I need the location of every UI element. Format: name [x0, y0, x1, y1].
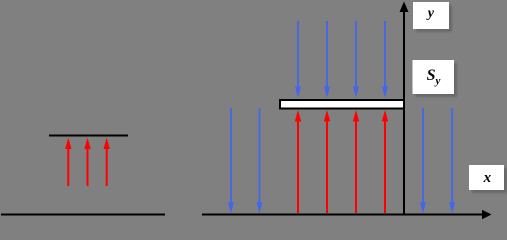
label box shadow: y — [416, 5, 452, 32]
bottom red arrow 4 (up) — [382, 110, 388, 213]
x axis line — [202, 214, 483, 216]
left red arrow 1 (up) — [65, 138, 71, 186]
y axis line — [403, 12, 405, 216]
label box: x — [469, 165, 504, 190]
top blue arrow 1 (down) — [295, 21, 301, 98]
left red arrow 2 (up) — [84, 138, 90, 186]
label box: Sy — [413, 60, 455, 94]
white bar (section slab) — [280, 100, 404, 109]
y axis arrowhead — [400, 2, 409, 13]
left red arrow 3 (up) — [104, 138, 110, 186]
bottom red arrow 3 (up) — [353, 110, 359, 213]
long blue arrow right-2 (down) — [449, 108, 455, 214]
long blue arrow left-1 (down) — [228, 108, 234, 214]
long blue arrow left-2 (down) — [257, 108, 263, 214]
left figure: bottom baseline — [1, 214, 165, 216]
left figure: top chord line — [49, 135, 128, 137]
label box shadow: x — [472, 168, 507, 193]
svg-text:y: y — [426, 6, 435, 21]
x axis arrowhead — [482, 210, 492, 219]
label box shadow: Sy — [416, 63, 458, 97]
label box: y — [413, 2, 449, 29]
bottom red arrow 1 (up) — [295, 110, 301, 213]
svg-text:x: x — [483, 170, 492, 186]
top blue arrow 4 (down) — [382, 21, 388, 98]
top blue arrow 3 (down) — [353, 21, 359, 98]
bottom red arrow 2 (up) — [324, 110, 330, 213]
top blue arrow 2 (down) — [324, 21, 330, 98]
long blue arrow right-1 (down) — [420, 108, 426, 214]
